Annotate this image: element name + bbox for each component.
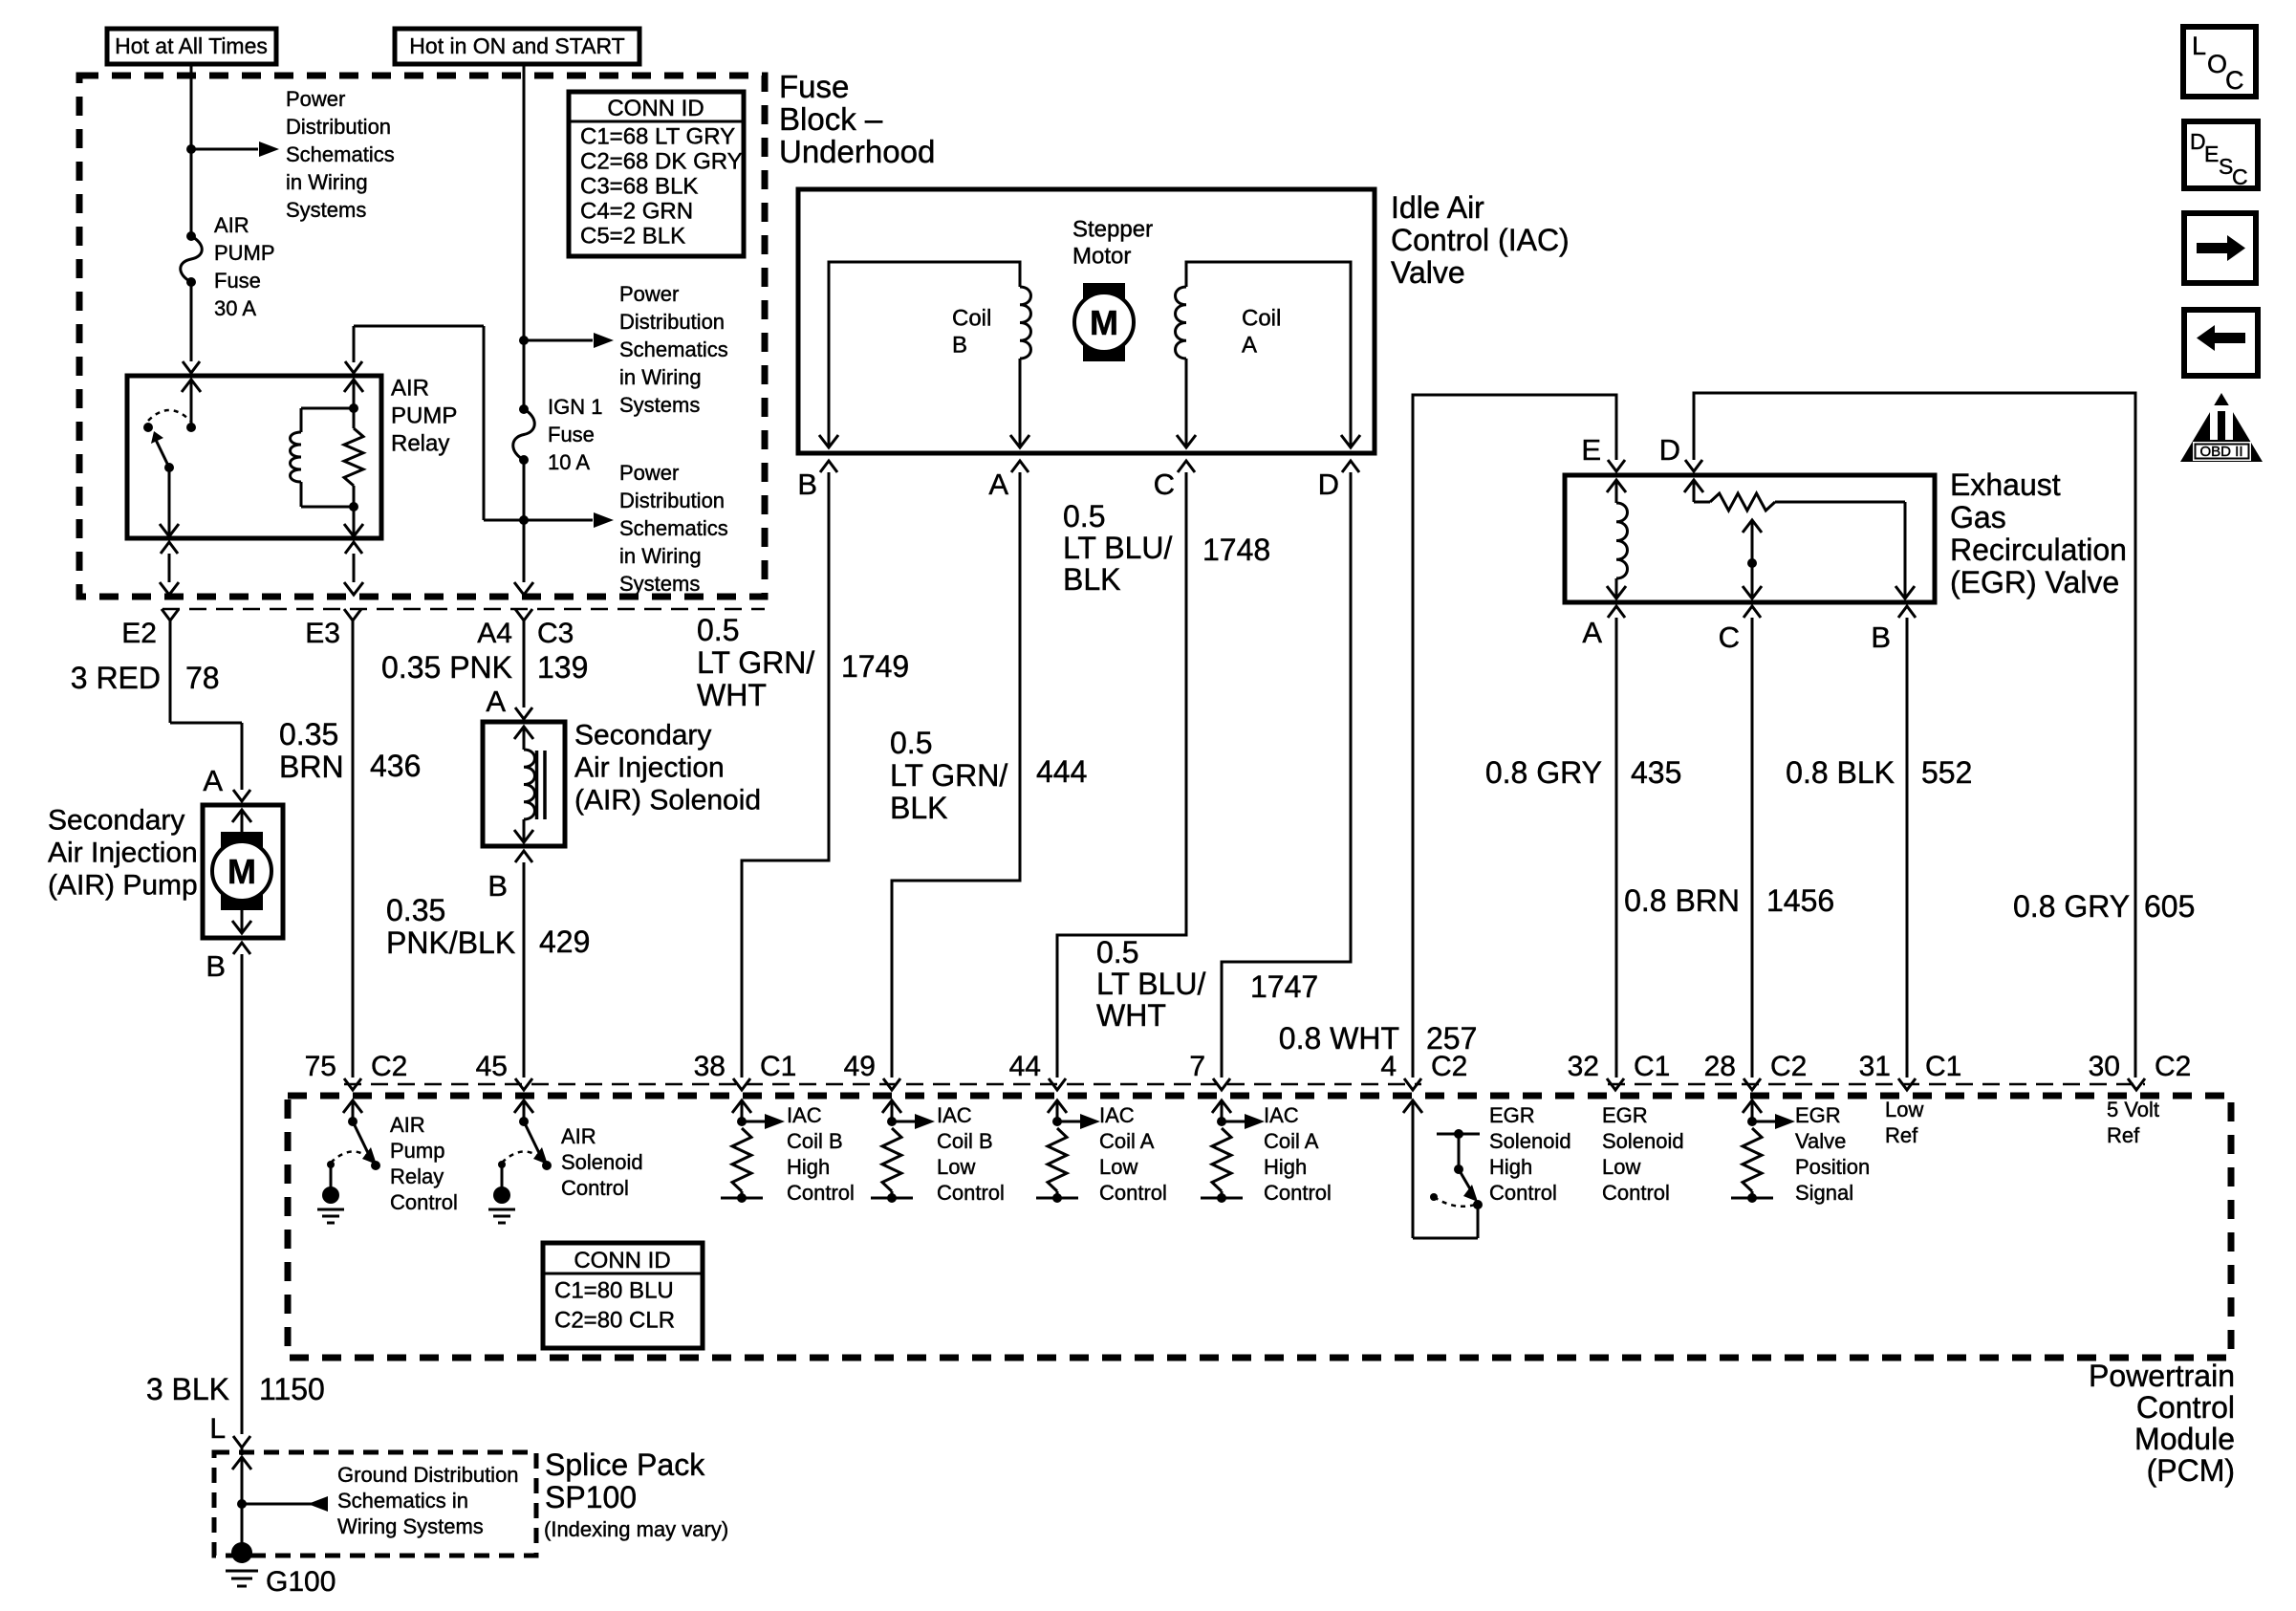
wire: 3 RED 78 (E2 to AIR pump) [170, 620, 242, 790]
text: IAC Coil A Low Control [1099, 1103, 1167, 1205]
pin label B (EGR) [1871, 620, 1891, 654]
label: Coil B [952, 305, 991, 358]
svg-text:IAC: IAC [787, 1103, 822, 1127]
svg-text:44: 44 [1009, 1051, 1041, 1082]
svg-text:Idle Air: Idle Air [1391, 190, 1484, 225]
wire: fuse to AIR PUMP relay [190, 282, 193, 361]
svg-text:Valve: Valve [1391, 255, 1465, 290]
relay coil winding [291, 408, 301, 507]
PCM pin 45 [476, 1051, 532, 1090]
svg-text:OBD II: OBD II [2199, 444, 2242, 460]
component label: Secondary Air Injection (AIR) Pump [48, 805, 198, 902]
pin label A (AIR pump) [203, 764, 223, 797]
svg-text:Valve: Valve [1795, 1129, 1846, 1153]
svg-text:IAC: IAC [1264, 1103, 1299, 1127]
fuse: IGN 1 Fuse 10 A [513, 404, 535, 465]
svg-text:32: 32 [1568, 1051, 1599, 1082]
svg-text:Secondary: Secondary [574, 720, 711, 751]
wire label: 0.35 PNK [381, 650, 512, 685]
label: Splice Pack SP100 [544, 1448, 728, 1541]
svg-text:1456: 1456 [1766, 883, 1834, 918]
svg-text:Control: Control [1489, 1181, 1557, 1205]
svg-text:B: B [797, 468, 817, 501]
IAC coil A loop [1176, 262, 1360, 447]
PCM pin 4 C2 [1380, 1051, 1467, 1090]
svg-text:Splice Pack: Splice Pack [545, 1448, 705, 1482]
connector chevron EGR D [1685, 460, 1702, 471]
wire label: 429 [539, 925, 590, 959]
svg-text:Control: Control [787, 1181, 855, 1205]
wire: 0.8 WHT 257 (EGR E to PCM 4) [1413, 395, 1616, 1078]
svg-text:1749: 1749 [841, 649, 909, 684]
svg-text:Distribution: Distribution [619, 310, 725, 334]
svg-text:EGR: EGR [1795, 1103, 1841, 1127]
relay switch movable arm [151, 431, 174, 472]
svg-text:B: B [206, 949, 226, 983]
svg-text:L: L [209, 1413, 226, 1445]
svg-text:LT GRN/: LT GRN/ [697, 645, 814, 680]
svg-text:A: A [203, 764, 223, 797]
svg-text:LT BLU/: LT BLU/ [1096, 967, 1206, 1001]
svg-text:Module: Module [2134, 1422, 2235, 1456]
PCM pin 28 C2 [1704, 1051, 1808, 1090]
svg-text:435: 435 [1631, 755, 1681, 790]
svg-text:Power: Power [619, 282, 679, 306]
svg-text:31: 31 [1859, 1051, 1891, 1082]
connector chevron below relay coil (to E3) [345, 542, 362, 554]
component label: Idle Air Control (IAC) Valve [1391, 190, 1570, 290]
svg-text:E: E [1581, 433, 1601, 467]
PCM pin 49 [844, 1051, 900, 1090]
svg-text:Motor: Motor [1072, 243, 1131, 269]
wire label: 436 [370, 749, 421, 783]
svg-text:CONN ID: CONN ID [607, 96, 704, 121]
svg-text:C1=80 BLU: C1=80 BLU [554, 1277, 674, 1303]
svg-text:High: High [787, 1155, 830, 1179]
wire label: 0.5 LT BLU/BLK [1063, 499, 1173, 597]
relay switch input stem [182, 380, 201, 432]
svg-text:552: 552 [1921, 755, 1972, 790]
solenoid L1: Secondary Air Injection (AIR) Solenoid box [483, 722, 565, 846]
splice pack entry arrow [232, 1448, 251, 1550]
PCM load: IAC Coil B Low Control (pin 49) [871, 1100, 935, 1203]
svg-text:78: 78 [185, 661, 220, 695]
svg-text:0.8 GRY: 0.8 GRY [1485, 755, 1602, 790]
wire label: 3 RED [71, 661, 161, 695]
svg-text:O: O [2207, 50, 2227, 78]
EGR solenoid winding [1607, 480, 1627, 599]
wire: 0.35 PNK/BLK 429 (solenoid B to PCM 45) [523, 862, 526, 1078]
svg-text:0.8 GRY: 0.8 GRY [2013, 889, 2130, 924]
svg-text:38: 38 [694, 1051, 726, 1082]
svg-text:Power: Power [286, 87, 345, 111]
svg-text:Hot at All Times: Hot at All Times [115, 33, 268, 58]
splice pack SP100 dashed box [214, 1452, 536, 1556]
svg-text:49: 49 [844, 1051, 876, 1082]
node: splice to power distribution (ign lower) [519, 460, 529, 582]
pin label E2 [121, 618, 157, 649]
svg-text:WHT: WHT [697, 678, 767, 712]
svg-text:Stepper: Stepper [1072, 216, 1153, 242]
icon: back arrow box [2184, 310, 2258, 376]
svg-text:C4=2 GRN: C4=2 GRN [580, 198, 693, 224]
svg-text:Relay: Relay [390, 1165, 444, 1188]
svg-text:SP100: SP100 [545, 1480, 637, 1514]
connector chevron below relay (to E2) [161, 542, 178, 554]
svg-text:C2: C2 [1431, 1051, 1467, 1082]
text: EGR Solenoid High Control [1489, 1103, 1571, 1205]
pin label C (IAC) [1154, 468, 1175, 501]
relay switch output stem [160, 468, 179, 536]
wire label: 1150 [259, 1372, 325, 1406]
relay coil/resistor top rail [301, 407, 354, 410]
svg-text:B: B [952, 332, 967, 358]
svg-text:E3: E3 [305, 618, 340, 649]
wire label: 0.35 PNK/BLK [386, 893, 515, 960]
wire label: 0.8 WHT [1279, 1021, 1399, 1056]
wire label: 257 [1426, 1021, 1477, 1056]
svg-text:C1=68 LT GRY: C1=68 LT GRY [580, 123, 735, 149]
label: G100 [266, 1566, 336, 1598]
svg-text:1747: 1747 [1250, 969, 1318, 1004]
svg-text:Ground Distribution: Ground Distribution [337, 1463, 519, 1487]
text: IAC Coil A High Control [1264, 1103, 1332, 1205]
svg-text:Distribution: Distribution [619, 489, 725, 512]
label: AIR PUMP Fuse 30 A [214, 213, 275, 320]
wire label: 3 BLK [146, 1372, 229, 1406]
svg-text:30 A: 30 A [214, 296, 256, 320]
connector chevron EGR C [1744, 606, 1761, 618]
wire label: 0.8 GRY (435) [1485, 755, 1602, 790]
svg-text:AIR: AIR [214, 213, 249, 237]
svg-text:Gas: Gas [1950, 500, 2006, 534]
svg-text:LT GRN/: LT GRN/ [890, 758, 1007, 793]
wire: 0.8 GRY 605 (EGR D to PCM 30) [1694, 393, 2135, 1078]
connector chevron IAC B [820, 461, 837, 472]
svg-text:A: A [1582, 616, 1602, 649]
svg-text:Air Injection: Air Injection [48, 838, 198, 869]
svg-text:Coil B: Coil B [787, 1129, 843, 1153]
wire: 0.5 LT BLU/WHT 1747 (IAC D to PCM 7) [1222, 472, 1351, 1078]
svg-text:10 A: 10 A [548, 450, 590, 474]
svg-text:4: 4 [1380, 1051, 1397, 1082]
svg-text:BLK: BLK [890, 791, 947, 825]
pin label A4 [477, 618, 512, 649]
wire label: 1749 [841, 649, 909, 684]
relay coil bottom stem [344, 507, 363, 536]
pin label E (EGR) [1581, 433, 1601, 467]
pin label D (IAC) [1318, 468, 1339, 501]
svg-text:C2: C2 [2155, 1051, 2191, 1082]
svg-text:C1: C1 [1634, 1051, 1670, 1082]
svg-text:Control: Control [1264, 1181, 1332, 1205]
wire: 0.35 BRN 436 (E3 to PCM 75) [352, 620, 355, 1078]
svg-text:B: B [1871, 620, 1891, 654]
wire: 0.8 BRN 1456 (EGR C to PCM 28) [1751, 618, 1754, 1078]
PCM driver: AIR Solenoid Control (pin 45) [488, 1100, 552, 1223]
svg-text:BLK: BLK [1063, 562, 1120, 597]
svg-text:A: A [988, 468, 1008, 501]
svg-text:D: D [1659, 433, 1680, 467]
svg-text:Position: Position [1795, 1155, 1870, 1179]
connector chevron IAC C [1178, 461, 1195, 472]
svg-text:C: C [2225, 66, 2244, 95]
svg-text:High: High [1264, 1155, 1307, 1179]
wire label: 605 [2144, 889, 2195, 924]
wire label: 0.35 BRN [279, 717, 344, 784]
relay internal resistor [344, 408, 363, 512]
PCM pin 31 C1 [1859, 1051, 1962, 1090]
PCM driver: AIR Pump Relay Control (pin 75) [317, 1100, 380, 1223]
svg-text:Control (IAC): Control (IAC) [1391, 223, 1570, 257]
icon: forward arrow box [2184, 213, 2256, 283]
svg-text:Solenoid: Solenoid [561, 1150, 643, 1174]
connector chevron at splice pack L [233, 1436, 250, 1448]
IAC coil B loop [819, 262, 1030, 447]
pin label C (EGR) [1719, 620, 1740, 654]
node: splice SP100 [237, 1499, 247, 1509]
svg-text:IAC: IAC [937, 1103, 972, 1127]
svg-text:IAC: IAC [1099, 1103, 1135, 1127]
relay coil/resistor bottom rail [301, 506, 354, 509]
wire: branch arrow to power distribution (ign upper) [524, 333, 614, 348]
PCM pin 32 C1 [1568, 1051, 1671, 1090]
svg-text:436: 436 [370, 749, 421, 783]
svg-text:Control: Control [1602, 1181, 1670, 1205]
svg-text:WHT: WHT [1096, 998, 1166, 1033]
svg-text:A4: A4 [477, 618, 512, 649]
icon: DESC box [2184, 121, 2258, 189]
svg-text:IGN 1: IGN 1 [548, 395, 602, 419]
svg-text:0.35 PNK: 0.35 PNK [381, 650, 512, 685]
PCM load: IAC Coil A Low Control (pin 44) [1036, 1100, 1100, 1203]
text: EGR Solenoid Low Control [1602, 1103, 1684, 1205]
wire label: 552 [1921, 755, 1972, 790]
PCM dashed box (Powertrain Control Module) [288, 1096, 2231, 1358]
svg-text:C5=2 BLK: C5=2 BLK [580, 223, 685, 249]
motor M1: Secondary Air Injection (AIR) Pump box [203, 805, 283, 938]
connector boundary (fine dashed) below fuse block [162, 608, 765, 611]
svg-text:AIR: AIR [391, 375, 429, 401]
PCM pin 38 C1 [694, 1051, 797, 1090]
fuse: AIR PUMP Fuse 30 A [181, 231, 203, 287]
wire: relay coil feed from IGN 1 fuse [354, 326, 524, 520]
PCM pin 75 C2 [305, 1051, 408, 1090]
svg-text:0.35: 0.35 [386, 893, 445, 927]
svg-text:C2=80 CLR: C2=80 CLR [554, 1307, 675, 1333]
svg-text:Block –: Block – [779, 101, 883, 137]
svg-text:in Wiring: in Wiring [619, 544, 702, 568]
svg-text:Hot in ON and START: Hot in ON and START [409, 33, 624, 58]
svg-text:Fuse: Fuse [214, 269, 261, 293]
connector chevron E2 [162, 609, 179, 620]
connector chevron EGR A [1608, 606, 1625, 618]
svg-text:C: C [2232, 164, 2248, 189]
svg-text:30: 30 [2089, 1051, 2120, 1082]
wire label: 1456 [1766, 883, 1834, 918]
table: CONN ID (PCM) [543, 1243, 703, 1348]
svg-text:3 RED: 3 RED [71, 661, 161, 695]
pin label A (AIR solenoid) [486, 685, 506, 718]
svg-text:0.5: 0.5 [697, 613, 739, 647]
relay switch fixed contact [143, 423, 153, 432]
svg-text:Control: Control [390, 1190, 458, 1214]
svg-text:Powertrain: Powertrain [2089, 1359, 2235, 1393]
svg-text:AIR: AIR [561, 1124, 596, 1148]
svg-text:E2: E2 [121, 618, 157, 649]
svg-text:EGR: EGR [1489, 1103, 1535, 1127]
svg-text:Low: Low [937, 1155, 975, 1179]
wire: 0.5 LT GRN/BLK 444 (IAC A to PCM 49) [892, 472, 1020, 1078]
note text: Power Distribution Schematics in Wiring Systems (3) [619, 461, 728, 596]
text: IAC Coil B Low Control [937, 1103, 1005, 1205]
wire arrow at fuse block edge (C3) [514, 582, 533, 595]
svg-text:D: D [1318, 468, 1339, 501]
svg-text:CONN ID: CONN ID [574, 1248, 670, 1274]
svg-text:Distribution: Distribution [286, 115, 391, 139]
svg-text:C1: C1 [1925, 1051, 1961, 1082]
svg-text:(EGR) Valve: (EGR) Valve [1950, 565, 2119, 599]
connector chevron E3 [344, 609, 361, 620]
svg-text:Solenoid: Solenoid [1602, 1129, 1684, 1153]
svg-text:BRN: BRN [279, 750, 344, 784]
wire label: 139 [537, 650, 588, 685]
svg-text:A: A [1242, 332, 1257, 358]
pin label B (AIR pump) [206, 949, 226, 983]
IAC valve box [798, 189, 1375, 453]
pin label B (AIR solenoid) [487, 869, 508, 903]
svg-text:Recirculation: Recirculation [1950, 533, 2127, 567]
connector chevron at AIR solenoid A [515, 708, 532, 719]
svg-text:139: 139 [537, 650, 588, 685]
label box: Hot at All Times [107, 29, 276, 64]
svg-text:Signal: Signal [1795, 1181, 1853, 1205]
svg-text:Coil B: Coil B [937, 1129, 993, 1153]
wire label: 435 [1631, 755, 1681, 790]
svg-text:45: 45 [476, 1051, 508, 1082]
component label: Powertrain Control Module (PCM) [2089, 1359, 2235, 1488]
svg-text:Control: Control [1099, 1181, 1167, 1205]
motor M2: IAC stepper motor [1074, 283, 1134, 361]
relay coil top stem [344, 361, 363, 413]
wire: ignition feed from Hot in ON and START [523, 64, 526, 409]
PCM pin 7 [1189, 1051, 1230, 1090]
label: Coil A [1242, 305, 1281, 358]
svg-text:Ref: Ref [2107, 1123, 2140, 1147]
connector chevron EGR E [1608, 460, 1625, 471]
svg-text:0.35: 0.35 [279, 717, 338, 751]
connector chevron IAC A [1011, 461, 1029, 472]
wire: 3 BLK 1150 (pump B to splice pack) [241, 954, 244, 1434]
svg-text:1150: 1150 [259, 1372, 325, 1406]
svg-text:444: 444 [1036, 754, 1087, 789]
wire: 0.8 GRY 435 (EGR A to PCM 32) [1615, 618, 1618, 1078]
text: AIR Pump Relay Control [390, 1113, 458, 1214]
svg-text:Systems: Systems [286, 198, 366, 222]
svg-text:Schematics: Schematics [619, 337, 728, 361]
connector chevron IAC D [1342, 461, 1359, 472]
svg-text:PUMP: PUMP [391, 403, 457, 428]
PCM load: IAC Coil B High Control (pin 38) [721, 1100, 785, 1203]
icon: LOC box [2183, 27, 2256, 97]
svg-text:M: M [1090, 303, 1118, 342]
svg-text:Systems: Systems [619, 393, 700, 417]
svg-text:L: L [2192, 32, 2206, 60]
wire: 0.35 PNK 139 (C3 to AIR solenoid) [523, 620, 526, 708]
wire: 0.5 LT BLU/BLK 1748 (IAC C to PCM 44) [1057, 472, 1186, 1078]
connector boundary (fine dashed) above PCM right [1608, 1083, 2145, 1086]
svg-text:0.5: 0.5 [1096, 935, 1138, 969]
pin label B (IAC) [797, 468, 817, 501]
connector chevron at AIR pump A [233, 790, 250, 801]
svg-text:Coil A: Coil A [1099, 1129, 1155, 1153]
svg-text:5 Volt: 5 Volt [2107, 1098, 2159, 1121]
wire: 0.8 BLK 552 (EGR B to PCM 31) [1906, 618, 1909, 1078]
svg-text:in Wiring: in Wiring [619, 365, 702, 389]
text: AIR Solenoid Control [561, 1124, 643, 1200]
svg-text:28: 28 [1704, 1051, 1736, 1082]
svg-text:(AIR) Solenoid: (AIR) Solenoid [574, 785, 761, 816]
svg-text:Low: Low [1602, 1155, 1640, 1179]
svg-text:in Wiring: in Wiring [286, 170, 368, 194]
svg-text:Control: Control [2136, 1390, 2235, 1425]
relay K: AIR PUMP Relay box [127, 376, 381, 538]
wire label: 0.5 LT GRN/WHT [697, 613, 814, 712]
svg-text:EGR: EGR [1602, 1103, 1648, 1127]
svg-text:0.5: 0.5 [1063, 499, 1105, 533]
svg-text:C: C [1719, 620, 1740, 654]
svg-text:LT BLU/: LT BLU/ [1063, 531, 1173, 565]
svg-text:B: B [487, 869, 508, 903]
svg-text:Fuse: Fuse [548, 423, 595, 446]
svg-text:Schematics: Schematics [286, 142, 395, 166]
svg-text:Underhood: Underhood [779, 134, 935, 169]
svg-text:Air Injection: Air Injection [574, 752, 725, 784]
wire: branch arrow to ground distribution [242, 1496, 328, 1512]
wire label: 0.5 LT BLU/WHT [1096, 935, 1206, 1033]
svg-text:C1: C1 [760, 1051, 796, 1082]
svg-text:Coil: Coil [1242, 305, 1281, 331]
svg-text:E: E [2204, 142, 2219, 166]
svg-text:Relay: Relay [391, 430, 449, 456]
pin label D (EGR) [1659, 433, 1680, 467]
PCM pin 44 [1009, 1051, 1066, 1090]
svg-text:A: A [486, 685, 506, 718]
svg-text:(AIR) Pump: (AIR) Pump [48, 870, 198, 902]
svg-text:C2: C2 [1770, 1051, 1807, 1082]
connector chevron A4/C3 [515, 609, 532, 620]
relay switch actuation dashed arc [148, 410, 190, 421]
text: IAC Coil B High Control [787, 1103, 855, 1205]
svg-text:G100: G100 [266, 1566, 336, 1598]
table: CONN ID (fuse block) [569, 92, 744, 256]
svg-text:Exhaust: Exhaust [1950, 468, 2061, 502]
svg-text:1748: 1748 [1202, 533, 1270, 567]
svg-text:Coil A: Coil A [1264, 1129, 1319, 1153]
wire label: 0.8 BRN [1624, 883, 1740, 918]
component label: Fuse Block - Underhood [779, 69, 935, 169]
PCM load: EGR Valve Position Signal (pin 28) [1731, 1100, 1795, 1203]
wire: branch arrow to power distribution (ign lower) [524, 512, 614, 528]
wire label: 1748 [1202, 533, 1270, 567]
svg-text:Ref: Ref [1885, 1123, 1918, 1147]
label: IGN 1 Fuse 10 A [548, 395, 602, 474]
note text: Ground Distribution Schematics in Wiring Systems [337, 1463, 519, 1538]
wire: battery feed from Hot at All Times [190, 64, 193, 236]
svg-text:7: 7 [1189, 1051, 1205, 1082]
svg-text:C2=68 DK GRY: C2=68 DK GRY [580, 148, 743, 174]
svg-text:Systems: Systems [619, 572, 700, 596]
